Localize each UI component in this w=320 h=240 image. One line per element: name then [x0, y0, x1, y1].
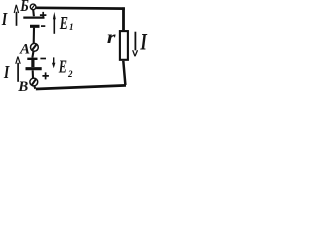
plus sign E2 — [42, 72, 49, 79]
minus sign E1 — [41, 25, 45, 27]
battery E2 long plate (+) — [26, 67, 42, 70]
svg-text:I: I — [1, 9, 8, 29]
svg-text:Б: Б — [19, 0, 29, 15]
wire top (Б to right corner) — [36, 6, 125, 10]
wire Б to E1 — [32, 10, 35, 17]
terminal B (circle) — [30, 78, 38, 86]
svg-text:1: 1 — [69, 22, 74, 32]
battery E2 stem blob — [31, 60, 34, 67]
wire right top (corner to resistor) — [122, 7, 125, 30]
svg-text:r: r — [107, 27, 117, 47]
current arrow I down (right) — [133, 32, 138, 57]
svg-text:I: I — [140, 30, 148, 55]
resistor r (rectangle) — [120, 31, 128, 60]
battery E2 short thick plate (-) — [27, 58, 37, 60]
minus sign E2 — [40, 58, 46, 60]
wire right bottom (resistor to corner) — [123, 61, 125, 85]
wire E1 to A — [32, 28, 37, 58]
current arrow I up (bottom left) — [16, 57, 20, 82]
svg-text:E: E — [59, 13, 68, 33]
current arrow I up (top left) — [14, 5, 18, 26]
emf arrow E2 down — [52, 57, 55, 68]
emf arrow E1 up — [53, 12, 56, 34]
svg-text:А: А — [19, 42, 30, 58]
svg-text:E: E — [58, 56, 67, 76]
battery E1 long plate (+) — [23, 16, 44, 18]
battery E1 short thick plate (-) — [30, 25, 40, 28]
terminal Б (circle) — [30, 4, 36, 10]
svg-text:2: 2 — [67, 69, 73, 79]
terminal A (circle) — [31, 43, 39, 51]
svg-text:В: В — [17, 79, 28, 95]
svg-text:I: I — [3, 62, 10, 82]
wire bottom (B to right corner) — [36, 85, 126, 89]
wire E2 to B — [32, 70, 36, 89]
plus sign E1 — [40, 12, 47, 18]
